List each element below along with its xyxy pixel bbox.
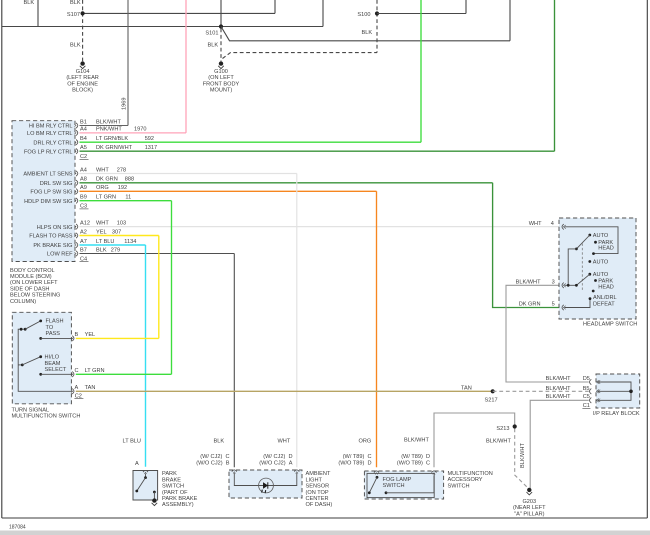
svg-text:MULTIFUNCTION SWITCH: MULTIFUNCTION SWITCH [12, 414, 81, 420]
svg-text:DK GRN/WHT: DK GRN/WHT [96, 145, 133, 151]
BCM pin A8 DK GRN [74, 177, 134, 186]
flash to pass switch [20, 319, 72, 340]
BCM pin A4 PNK/WHT [74, 127, 146, 136]
headlamp ANL/DRL defeat [565, 295, 617, 307]
svg-text:(W/O T89) C: (W/O T89) C [397, 461, 430, 467]
svg-text:BLK/WHT: BLK/WHT [546, 394, 571, 400]
wire WHT 278 [80, 173, 297, 175]
wire LT GRN vertical to turn signal pin C [171, 201, 173, 375]
wire ground bus horizontal y=26.5 [2, 26, 323, 28]
svg-text:AUTO: AUTO [593, 259, 609, 265]
label WHT (ambient sensor) [278, 439, 291, 445]
svg-text:HEAD: HEAD [598, 246, 614, 252]
svg-text:FLASH TO PASS: FLASH TO PASS [29, 234, 72, 240]
splice S213 [496, 424, 516, 432]
ambient sensor right pin arc [294, 470, 299, 474]
svg-text:A12: A12 [80, 220, 90, 226]
splice S217 [485, 389, 498, 404]
fog switch left pin labels [338, 454, 371, 467]
BCM pin B1 [74, 119, 121, 128]
fog lamp switch caption [383, 477, 412, 489]
svg-text:B4: B4 [80, 136, 87, 142]
label ORG (fog switch) [359, 439, 372, 445]
page frame right [646, 0, 648, 518]
svg-text:(W/O CJ2) A: (W/O CJ2) A [259, 461, 293, 467]
ambient sensor right pin labels [259, 454, 293, 467]
svg-text:FLASH: FLASH [46, 319, 64, 325]
turn signal pin A [71, 385, 95, 394]
svg-text:AMBIENT LT SENS: AMBIENT LT SENS [23, 172, 72, 178]
label LT BLU [123, 439, 141, 445]
svg-text:(ON LOWER LEFT: (ON LOWER LEFT [10, 280, 58, 286]
wire S100 horizontal [377, 0, 466, 14]
svg-text:(ON LEFT: (ON LEFT [208, 75, 234, 81]
label BLK (top left wire) [24, 0, 35, 6]
svg-text:SWITCH: SWITCH [448, 483, 470, 489]
wire BLK/WHT C5 to G203 [530, 400, 589, 488]
svg-text:BLK: BLK [214, 439, 225, 445]
svg-text:BLK: BLK [24, 0, 35, 6]
BCM label FLASH TO PASS [29, 234, 72, 240]
svg-text:ORG: ORG [96, 185, 109, 191]
svg-text:BRAKE: BRAKE [162, 477, 181, 483]
svg-text:TO: TO [46, 325, 54, 331]
svg-text:HLPS ON SIG: HLPS ON SIG [37, 225, 73, 231]
svg-text:(W/ CJ2) C: (W/ CJ2) C [200, 454, 229, 460]
relay connector C1 label [582, 403, 590, 409]
svg-text:SENSOR: SENSOR [306, 484, 330, 490]
svg-text:ORG: ORG [359, 439, 372, 445]
headlamp internal pin4 wire [565, 227, 619, 254]
svg-text:BLK: BLK [96, 247, 107, 253]
svg-text:OF DASH): OF DASH) [306, 502, 333, 508]
splice S101 [205, 24, 223, 36]
svg-text:LOW REF: LOW REF [47, 252, 73, 258]
BCM pin A2 YEL [74, 229, 121, 238]
wire YEL pin B [76, 337, 159, 339]
BCM pin B9 LT GRN [74, 195, 131, 204]
page frame left [1, 0, 3, 518]
svg-text:(W/ T89) D: (W/ T89) D [401, 454, 430, 460]
wire DK GRN 888 [80, 182, 493, 184]
svg-text:WHT: WHT [96, 167, 109, 173]
label BLK (G104 wire lower) [70, 43, 81, 49]
svg-text:3: 3 [552, 279, 555, 285]
splice S107 [67, 11, 85, 18]
splice S100 [357, 11, 379, 17]
label BLK/WHT (S213 wire) [486, 439, 511, 445]
BCM label FOG LP RLY CTRL [24, 149, 73, 155]
wire BLK/WHT B1 [80, 125, 129, 127]
wire LT GRN/BLK 592 [80, 141, 422, 143]
svg-text:TAN: TAN [461, 386, 472, 392]
svg-text:BLK/WHT: BLK/WHT [546, 386, 571, 392]
page frame bottom [2, 517, 648, 519]
svg-text:A2: A2 [80, 229, 87, 235]
svg-text:A9: A9 [80, 185, 87, 191]
BCM connector C3 label [80, 204, 89, 210]
svg-text:DRL RLY CTRL: DRL RLY CTRL [33, 140, 72, 146]
turn signal connector C2 label [74, 393, 83, 399]
svg-text:592: 592 [145, 136, 154, 142]
relay pin D5 [546, 376, 599, 385]
BCM label HI BM RLY CTRL [29, 124, 73, 130]
ground G100 [203, 61, 240, 93]
wire BLK 279 vertical [233, 254, 235, 468]
relay pin B5 [546, 386, 599, 394]
wire LT BLU vertical to park brake switch [145, 245, 147, 467]
wire ORG 192 [80, 190, 377, 192]
fog lamp switch inner box [367, 473, 434, 497]
ground G203 [513, 488, 546, 518]
svg-text:5: 5 [552, 302, 555, 308]
park brake switch box [133, 471, 158, 501]
svg-text:A4: A4 [80, 167, 87, 173]
wire PNK/WHT 1970 [80, 132, 187, 134]
BCM label LO BM RLY CTRL [27, 131, 73, 137]
svg-text:S100: S100 [357, 12, 370, 18]
park brake internal ground [152, 498, 158, 505]
svg-text:B1: B1 [80, 119, 87, 125]
park brake pin A label [135, 461, 139, 467]
wire BLK dashed G104 vertical [82, 0, 84, 61]
svg-text:1134: 1134 [124, 239, 136, 245]
svg-text:PK BRAKE SIG: PK BRAKE SIG [33, 243, 72, 249]
svg-text:SWITCH: SWITCH [162, 484, 184, 490]
svg-text:LT BLU: LT BLU [96, 239, 114, 245]
headlamp divider dashed [581, 244, 583, 292]
svg-text:192: 192 [118, 185, 127, 191]
svg-text:HI BM RLY CTRL: HI BM RLY CTRL [29, 124, 73, 130]
multifunction accessory switch outer box [364, 471, 443, 499]
svg-text:FRONT BODY: FRONT BODY [203, 81, 240, 87]
bottom gray strip [0, 531, 650, 535]
svg-text:HEADLAMP SWITCH: HEADLAMP SWITCH [583, 322, 637, 328]
svg-text:G104: G104 [76, 69, 90, 75]
svg-text:BLK/WHT: BLK/WHT [96, 119, 121, 125]
svg-text:B5: B5 [583, 386, 590, 392]
BCM caption text [10, 268, 60, 305]
svg-text:187084: 187084 [9, 525, 26, 531]
wire S101 branch diagonal [221, 0, 510, 41]
wire DK GRN vertical to headlamp pin 5 [493, 183, 561, 308]
svg-text:4: 4 [551, 221, 554, 227]
ambient sensor internal wires [234, 473, 296, 486]
wire S101 riser to top [220, 0, 222, 27]
svg-text:BLK/WHT: BLK/WHT [516, 279, 541, 285]
wire BLK/WHT dashed S213 to G203 [515, 429, 529, 489]
park brake switch [135, 474, 155, 501]
svg-text:ASSEMBLY): ASSEMBLY) [162, 502, 194, 508]
svg-text:LT BLU: LT BLU [123, 439, 141, 445]
svg-text:LT GRN: LT GRN [96, 195, 116, 201]
wire BLK/WHT B1 riser [127, 0, 129, 126]
wire S107 horizontal [83, 0, 275, 13]
svg-text:FOG LP RLY CTRL: FOG LP RLY CTRL [24, 149, 73, 155]
BCM pin A9 ORG [74, 185, 127, 194]
svg-text:C5: C5 [583, 394, 590, 400]
svg-text:DK GRN: DK GRN [519, 302, 541, 308]
svg-text:MULTIFUNCTION: MULTIFUNCTION [448, 471, 493, 477]
svg-text:FOG LP SW SIG: FOG LP SW SIG [30, 190, 72, 196]
wire LT GRN/BLK riser [420, 0, 422, 142]
svg-text:BLK/WHT: BLK/WHT [520, 443, 526, 468]
svg-text:PARK BRAKE: PARK BRAKE [162, 496, 198, 502]
svg-text:A: A [135, 461, 139, 467]
headlamp internal link [565, 249, 577, 287]
I/P relay block box [596, 374, 640, 408]
headlamp switch 2 contacts [575, 272, 614, 292]
wire LT BLU 1134 [80, 244, 146, 246]
svg-text:BLK: BLK [70, 43, 81, 49]
svg-text:ACCESSORY: ACCESSORY [448, 477, 483, 483]
ambient light sensor box [229, 470, 302, 498]
svg-text:LO BM RLY CTRL: LO BM RLY CTRL [27, 131, 73, 137]
label BLK (S100 wire) [362, 30, 373, 36]
headlamp switch 1 contacts [575, 233, 614, 255]
svg-text:YEL: YEL [96, 229, 107, 235]
svg-text:WHT: WHT [529, 221, 542, 227]
BCM pin A5 DK GRN/WHT [74, 145, 157, 154]
svg-text:BLK/WHT: BLK/WHT [486, 439, 511, 445]
svg-text:279: 279 [111, 247, 120, 253]
wire BLK vertical top-left [37, 0, 39, 27]
svg-text:1969: 1969 [122, 98, 128, 110]
BCM pin A12 WHT [74, 220, 126, 229]
svg-text:HDLP DIM SW SIG: HDLP DIM SW SIG [24, 199, 72, 205]
svg-text:A7: A7 [80, 239, 87, 245]
svg-text:B: B [75, 332, 79, 338]
svg-text:LT GRN/BLK: LT GRN/BLK [96, 136, 128, 142]
headlamp switch caption [583, 322, 637, 328]
BCM label HDLP DIM SW SIG [24, 199, 72, 205]
BCM label FOG LP SW SIG [30, 190, 72, 196]
svg-text:SELECT: SELECT [45, 367, 67, 373]
wire WHT 278 vertical [296, 174, 298, 468]
svg-text:B9: B9 [80, 195, 87, 201]
photodiode sensor symbol [259, 478, 274, 493]
relay caption [593, 411, 640, 417]
hi/lo beam select switch [21, 355, 72, 376]
svg-text:BLK: BLK [362, 30, 373, 36]
svg-text:SIDE OF DASH: SIDE OF DASH [10, 286, 49, 292]
svg-text:(W/ T89) C: (W/ T89) C [343, 454, 372, 460]
wire BLK/WHT headlamp pin3 to relay D5 [506, 285, 589, 382]
svg-text:AUTO: AUTO [593, 272, 609, 278]
svg-text:(W/ CJ2) D: (W/ CJ2) D [263, 454, 292, 460]
svg-text:888: 888 [125, 177, 134, 183]
svg-text:TAN: TAN [85, 385, 96, 391]
svg-text:PASS: PASS [46, 331, 61, 337]
svg-text:PARK: PARK [162, 471, 177, 477]
svg-text:103: 103 [117, 220, 126, 226]
fog switch left pin arc [374, 471, 379, 475]
svg-text:BLK: BLK [208, 43, 219, 49]
fog switch right pin labels [397, 454, 430, 467]
wire DK GRN/WHT 1317 [80, 150, 555, 152]
svg-text:LIGHT: LIGHT [306, 477, 323, 483]
BCM connector C2 label [80, 154, 89, 160]
wire WHT 103 [80, 226, 561, 228]
turn signal switch caption [12, 407, 81, 419]
headlamp pin 4 [529, 221, 566, 229]
svg-text:SWITCH: SWITCH [383, 483, 405, 489]
headlamp pin 5 [519, 302, 566, 311]
svg-text:AMBIENT: AMBIENT [306, 471, 331, 477]
wire LT GRN pin C [76, 373, 172, 375]
turn signal multifunction switch box [12, 312, 71, 404]
BCM connector C4 label [80, 256, 89, 262]
BCM pin B4 LT GRN/BLK [74, 136, 154, 145]
svg-text:LT GRN: LT GRN [85, 368, 105, 374]
svg-text:BEAM: BEAM [45, 361, 61, 367]
svg-text:B7: B7 [80, 247, 87, 253]
wire DK GRN/WHT riser [554, 0, 556, 151]
BCM pin A4 WHT [74, 167, 126, 176]
svg-text:ANL/DRL: ANL/DRL [593, 295, 617, 301]
svg-text:DEFEAT: DEFEAT [593, 301, 615, 307]
svg-text:1970: 1970 [134, 127, 146, 133]
wire BLK 279 [80, 253, 235, 255]
svg-text:"A" PILLAR): "A" PILLAR) [514, 511, 545, 517]
svg-text:FOG LAMP: FOG LAMP [383, 477, 412, 483]
svg-text:YEL: YEL [85, 332, 96, 338]
BCM label DRL SW SIG [40, 181, 73, 187]
svg-text:A5: A5 [80, 145, 87, 151]
wire ORG vertical [376, 191, 378, 467]
park brake pin arc [143, 470, 148, 474]
BCM pin B7 BLK [74, 247, 120, 256]
fog lamp switch contacts [368, 476, 434, 495]
svg-text:BELOW STEERING: BELOW STEERING [10, 293, 60, 299]
svg-text:C: C [75, 368, 79, 374]
body control module BCM box [12, 121, 75, 262]
BCM label PK BRAKE SIG [33, 243, 72, 249]
wire TAN to S217 [76, 390, 493, 392]
ground G104 [66, 61, 99, 93]
svg-text:PARK: PARK [598, 278, 613, 284]
svg-text:DK GRN: DK GRN [96, 177, 118, 183]
svg-text:A: A [75, 385, 79, 391]
svg-text:D5: D5 [583, 376, 590, 382]
turn signal pin B [71, 332, 95, 341]
svg-text:PNK/WHT: PNK/WHT [96, 127, 122, 133]
svg-text:BODY CONTROL: BODY CONTROL [10, 268, 55, 274]
svg-text:A8: A8 [80, 177, 87, 183]
ambient sensor left pin arc [232, 470, 237, 474]
sheet number 187084 [9, 525, 26, 531]
label BLK/WHT (fog switch riser) [404, 438, 429, 444]
label TAN near S217 [461, 386, 472, 392]
svg-text:MODULE (BCM): MODULE (BCM) [10, 274, 52, 280]
svg-text:S213: S213 [496, 426, 509, 432]
label BLK (ambient sensor) [214, 439, 225, 445]
label BLK (S107 dashed wire) [70, 0, 81, 6]
relay internal bus [598, 380, 633, 402]
svg-text:(ON TOP: (ON TOP [306, 490, 329, 496]
svg-text:S101: S101 [205, 31, 218, 37]
wire BLK/WHT dashed S217 to relay B5 [493, 390, 589, 392]
svg-text:TURN SIGNAL: TURN SIGNAL [12, 407, 50, 413]
svg-text:(LEFT REAR: (LEFT REAR [66, 75, 99, 81]
multifunction accessory switch caption [448, 471, 493, 489]
BCM label DRL RLY CTRL [33, 140, 72, 146]
svg-text:A4: A4 [80, 127, 87, 133]
headlamp switch box [559, 218, 636, 319]
svg-text:HEAD: HEAD [598, 285, 614, 291]
svg-text:(PART OF: (PART OF [162, 490, 188, 496]
BCM label HLPS ON SIG [37, 225, 73, 231]
ambient sensor caption [306, 471, 333, 508]
svg-text:11: 11 [125, 195, 131, 201]
svg-text:G100: G100 [214, 69, 228, 75]
svg-text:(W/O T89) D: (W/O T89) D [338, 461, 371, 467]
svg-text:DRL SW SIG: DRL SW SIG [40, 181, 73, 187]
BCM label AMBIENT LT SENS [23, 172, 72, 178]
svg-text:278: 278 [117, 167, 126, 173]
svg-text:BLOCK): BLOCK) [72, 88, 93, 94]
svg-text:HI/LO: HI/LO [45, 355, 60, 361]
svg-text:307: 307 [112, 229, 121, 235]
fog switch right pin arc [432, 471, 437, 475]
svg-text:BLK: BLK [70, 0, 81, 6]
label BLK/WHT rotated [520, 443, 526, 468]
svg-text:1317: 1317 [145, 145, 157, 151]
turn signal internal common wire [18, 329, 72, 391]
svg-text:S107: S107 [67, 12, 80, 18]
headlamp pin 3 [516, 279, 566, 288]
BCM label LOW REF [47, 252, 73, 258]
svg-text:CENTER: CENTER [306, 496, 329, 502]
ambient sensor left pin labels [196, 454, 230, 467]
label 1969 rotated [122, 98, 128, 110]
svg-text:WHT: WHT [278, 439, 291, 445]
svg-text:BLK/WHT: BLK/WHT [404, 438, 429, 444]
wire YEL vertical to turn signal pin B [158, 236, 160, 339]
svg-text:MOUNT): MOUNT) [210, 88, 233, 94]
svg-text:WHT: WHT [96, 220, 109, 226]
wire riser to top at x=323 [322, 0, 324, 27]
wire BLK dashed S101 to G100 [208, 29, 222, 62]
wire BLK/WHT fog switch to S213 [434, 413, 515, 467]
svg-text:(W/O CJ2) B: (W/O CJ2) B [196, 461, 230, 467]
svg-text:G203: G203 [522, 499, 536, 505]
turn signal pin C [71, 368, 105, 377]
wire BLK dashed branch to S100 [223, 0, 378, 59]
svg-text:OF ENGINE: OF ENGINE [67, 81, 98, 87]
svg-text:COLUMN): COLUMN) [10, 299, 36, 305]
relay pin C5 [546, 394, 599, 403]
svg-text:(NEAR LEFT: (NEAR LEFT [513, 505, 546, 511]
wire YEL 307 [80, 235, 159, 237]
wire PNK/WHT riser [185, 0, 187, 133]
svg-text:S217: S217 [485, 398, 498, 404]
wire LT GRN 11 [80, 200, 172, 202]
park brake caption [162, 471, 198, 508]
BCM pin A7 LT BLU [74, 239, 136, 248]
headlamp middle AUTO contact [588, 259, 608, 265]
svg-text:BLK/WHT: BLK/WHT [546, 376, 571, 382]
svg-text:I/P RELAY BLOCK: I/P RELAY BLOCK [593, 411, 640, 417]
svg-text:AUTO: AUTO [593, 233, 609, 239]
